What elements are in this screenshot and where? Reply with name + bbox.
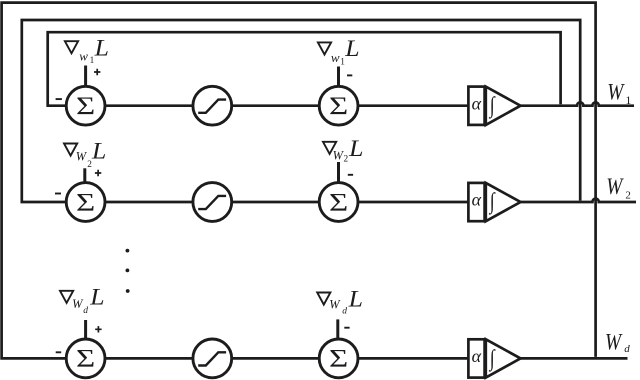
svg-text:d: d [83,306,88,316]
summator S1 row2 [66,183,105,222]
svg-text:W: W [329,298,341,312]
summator S2 row3 [319,339,358,378]
wire row3 sigmoid to sum2 [232,357,319,360]
plus sign row2 sum1 [95,170,101,176]
wire row1 output W1 with hops [521,102,635,105]
gradient label nabla W2 L row2 right [323,136,363,164]
summator S1 row1 [66,86,105,125]
gradient label nabla Wd L row3 left [60,285,105,316]
svg-text:Σ: Σ [76,345,95,372]
vertical ellipsis dots [126,249,130,293]
svg-text:∫: ∫ [488,190,496,216]
alpha gain box row1 [468,87,484,125]
plus sign row3 sum1 [95,326,101,332]
svg-text:L: L [348,136,363,161]
minus sign row2 sum1 [55,193,61,195]
svg-text:Σ: Σ [76,189,95,216]
plus sign row1 sum1 [94,69,100,75]
summator S1 row3 [66,339,105,378]
wire row2 sigmoid to sum2 [232,201,319,204]
wire stub label row3 sum2 [336,319,339,338]
svg-text:L: L [89,285,104,310]
gradient label nabla W2 L row2 left [64,139,106,170]
integrator triangle row2 [486,183,521,221]
wire row3 output Wd [521,357,628,360]
sigmoid curve row2 [198,196,226,209]
gradient label nabla w1 L row1 left [65,36,109,66]
wire row2 sum2 to alpha box [358,201,468,204]
svg-text:L: L [91,139,106,164]
alpha gain box row3 [468,339,484,377]
sigmoid block row2 [193,183,232,222]
node W1 output label [607,79,631,107]
minus sign row3 sum2 [344,327,349,329]
wire stub label row3 sum1 [84,320,87,339]
wire stub label row2 sum1 [83,168,86,182]
minus sign row3 sum1 [56,351,62,353]
svg-text:w: w [79,49,88,64]
alpha gain box row2 [468,183,484,221]
svg-text:Σ: Σ [329,345,348,372]
svg-text:W: W [76,150,88,164]
svg-text:α: α [472,93,482,113]
svg-text:L: L [344,36,359,61]
summator S2 row1 [319,86,358,125]
integrator triangle row1 [486,87,521,125]
wire feedback loop w1 inner [48,32,561,106]
svg-text:W: W [605,329,623,355]
svg-text:2: 2 [625,190,631,202]
svg-text:W: W [607,79,625,105]
wire row2 output W2 with hop [521,199,637,202]
svg-text:d: d [342,306,347,316]
svg-text:L: L [348,287,363,312]
svg-text:w: w [331,50,340,65]
node W2 output label [606,174,631,202]
wire stub label row1 sum1 [84,66,87,87]
wire row3 sum2 to alpha box [358,357,468,360]
svg-text:d: d [624,343,630,355]
wire row1 sum1 to sigmoid [105,104,193,107]
summator S2 row2 [319,183,358,222]
svg-text:L: L [94,36,109,61]
wire row1 sum2 to alpha box [358,104,468,107]
sigmoid block row3 [193,339,232,378]
sigmoid block row1 [193,86,232,125]
svg-text:Σ: Σ [329,93,348,120]
integrator triangle row3 [486,339,521,377]
wire stub label row1 sum2 [337,67,340,87]
wire feedback loop W2 middle [22,20,580,202]
wire stub label row2 sum2 [337,162,340,182]
sigmoid curve row3 [198,352,226,365]
svg-text:α: α [472,190,482,210]
minus sign row1 sum2 [347,74,352,76]
node Wd output label [605,329,630,355]
svg-text:∫: ∫ [488,93,496,119]
svg-text:Σ: Σ [329,189,348,216]
svg-text:α: α [472,346,482,366]
gradient label nabla Wd L row3 right [317,287,363,317]
wire row2 sum1 to sigmoid [105,201,193,204]
wire row3 sum1 to sigmoid [105,357,193,360]
sigmoid curve row1 [198,100,226,113]
gradient label nabla w1 L row1 right [318,36,360,67]
minus sign row2 sum2 [348,174,353,176]
svg-text:1: 1 [625,93,631,107]
minus sign row1 sum1 [56,98,62,100]
svg-text:2: 2 [344,155,349,165]
svg-text:Σ: Σ [76,93,95,120]
wire row1 sigmoid to sum2 [232,104,319,107]
svg-text:W: W [606,174,624,200]
svg-text:∫: ∫ [488,346,496,372]
